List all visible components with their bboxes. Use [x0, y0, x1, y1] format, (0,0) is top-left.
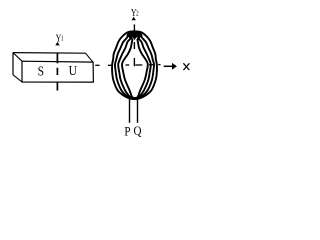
terminal label P [124, 123, 130, 138]
bar magnet bottom-left slant edge [13, 75, 22, 82]
coil lead P wire [129, 98, 131, 123]
axis Y1 arrowhead [55, 42, 59, 46]
bar magnet top-left slant edge [13, 53, 22, 62]
svg-text:Y1: Y1 [56, 32, 64, 45]
coil top winding knot [127, 31, 142, 41]
svg-text:Y2: Y2 [131, 7, 139, 20]
x-axis label cross stroke 2 [183, 63, 189, 70]
coil turn 1 (outer) [112, 31, 157, 99]
bar magnet back top edge [13, 52, 86, 55]
axis Y2 label [131, 7, 139, 20]
axis Y2 line above coil [133, 24, 135, 31]
x-axis dash 1 [95, 64, 99, 66]
axis Y1 label [56, 32, 64, 45]
x-axis label cross stroke 1 [183, 63, 189, 70]
magnet pole label U [69, 63, 77, 78]
magnet pole label S [38, 64, 44, 79]
axis Y1 dash 2 [56, 68, 58, 75]
x-axis arrow shaft [164, 65, 173, 67]
x-axis arrowhead [172, 63, 177, 70]
x-axis dash 6 [158, 64, 160, 66]
svg-text:P: P [124, 123, 130, 138]
axis Y2 dash inside coil 1 [133, 42, 135, 49]
coil lead Q wire [137, 98, 139, 123]
axis Y2 arrowhead [132, 17, 136, 20]
svg-text:U: U [69, 63, 77, 78]
coil turn 4 (inner) [122, 36, 148, 98]
x-axis dash 5 [149, 64, 154, 66]
coil turn 2 [115, 33, 154, 99]
x-axis dash 4 [135, 64, 142, 66]
svg-text:S: S [38, 64, 44, 79]
axis Y1 dash 1 [56, 53, 58, 63]
bar magnet back left edge [12, 53, 14, 75]
x-axis dash 2 [108, 64, 113, 66]
svg-text:Q: Q [134, 123, 142, 138]
bar magnet front face [22, 61, 93, 82]
x-axis dash 3 [126, 64, 130, 66]
coil turn 3 [118, 34, 151, 98]
bar magnet top-right slant edge [86, 53, 94, 62]
terminal label Q [134, 123, 142, 138]
axis Y1 dash 3 [56, 82, 58, 91]
axis Y2 dash inside coil 2 [133, 58, 135, 66]
